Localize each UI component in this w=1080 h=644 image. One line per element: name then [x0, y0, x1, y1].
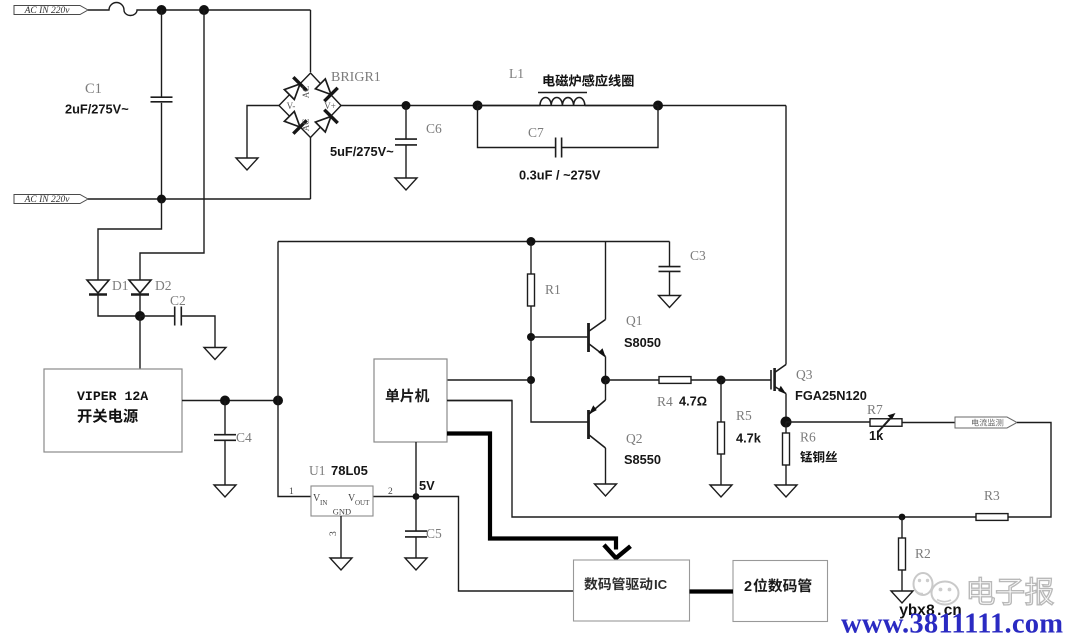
svg-text:C2: C2	[170, 293, 186, 308]
label R7	[867, 402, 883, 417]
svg-text:GND: GND	[333, 507, 351, 517]
label C5	[426, 526, 442, 541]
svg-text:FGA25N120: FGA25N120	[795, 388, 867, 403]
ground (R6)	[775, 485, 797, 497]
node dot C4 tap	[220, 396, 230, 406]
label C6	[426, 121, 442, 136]
svg-text:VIPER 12A: VIPER 12A	[77, 389, 148, 404]
resistor R7 (variable, 1k)	[870, 413, 902, 433]
block U VIPER 12A switching supply	[44, 369, 182, 452]
block 单片机 (microcontroller)	[374, 359, 447, 442]
ground (bridge V-)	[236, 158, 258, 170]
svg-text:C4: C4	[236, 430, 252, 445]
wire emitters to R4	[606, 379, 660, 381]
label D2	[155, 278, 172, 293]
svg-text:Q3: Q3	[796, 367, 813, 382]
node dot emitter junction	[601, 376, 610, 385]
value 电磁炉感应线圈 (induction cooker coil)	[543, 74, 633, 87]
wire Q2 collector to ground	[605, 448, 607, 484]
bridge pin label V+	[324, 101, 336, 111]
svg-text:R1: R1	[545, 282, 561, 297]
capacitor C1	[151, 97, 173, 102]
svg-text:AC IN 220v: AC IN 220v	[24, 195, 71, 205]
label Q3	[796, 367, 813, 382]
svg-text:0.3uF / ~275V: 0.3uF / ~275V	[519, 168, 601, 183]
svg-text:Q1: Q1	[626, 313, 643, 328]
wire neutral to D1	[98, 199, 162, 280]
value S8050	[624, 335, 661, 350]
wire C3 to ground	[669, 272, 671, 295]
node dot C6 tap	[402, 101, 411, 110]
value 1k	[869, 428, 884, 443]
resistor R1	[528, 274, 535, 306]
svg-text:R7: R7	[867, 402, 883, 417]
svg-text:5uF/275V~: 5uF/275V~	[330, 144, 394, 159]
bridge pin label AC bottom	[301, 119, 311, 132]
value S8550	[624, 452, 661, 467]
wire D2 cathode to node	[139, 296, 141, 317]
node dot L1 left	[473, 101, 483, 111]
wire C6 to ground	[405, 145, 407, 177]
ground (R2)	[891, 591, 913, 603]
label BRIGR1	[331, 70, 381, 85]
label L1	[509, 66, 524, 81]
svg-text:2uF/275V~: 2uF/275V~	[65, 102, 129, 117]
svg-text:C1: C1	[85, 81, 102, 97]
svg-text:1: 1	[289, 487, 294, 497]
node dot live/line-B	[199, 5, 209, 15]
label R5	[736, 408, 752, 423]
regulator U1 78L05	[311, 486, 373, 517]
label R6	[800, 430, 816, 445]
wire node to C2	[140, 315, 174, 317]
svg-text:2: 2	[388, 487, 393, 497]
wire R2 to ground	[901, 570, 903, 591]
svg-text:4.7Ω: 4.7Ω	[679, 394, 707, 409]
pin 1 label	[289, 487, 294, 497]
node dot 5V node	[413, 493, 420, 500]
inductor L1 (induction coil)	[478, 93, 659, 106]
bridge rectifier BRIGR1 (diamond)	[279, 73, 341, 138]
svg-text:L1: L1	[509, 66, 524, 81]
svg-text:78L05: 78L05	[331, 463, 368, 478]
bridge diode top-left	[284, 77, 306, 99]
wire DC+ rail	[341, 105, 786, 107]
value 78L05	[331, 463, 368, 478]
svg-text:Q2: Q2	[626, 431, 643, 446]
value 4.7 ohm	[679, 394, 707, 409]
wire to C4	[224, 401, 226, 435]
wire C2 to ground	[181, 316, 215, 347]
resistor R4	[659, 377, 691, 384]
watermark 电子报 (outlined)	[969, 577, 1053, 605]
wire Q3 emitter down	[785, 394, 787, 423]
pin 2 label	[388, 487, 393, 497]
node dot R2 tap	[899, 514, 906, 521]
block 2位数码管 (2-digit display)	[733, 561, 828, 622]
resistor R3	[976, 514, 1008, 521]
wire C7 branch left	[478, 106, 556, 148]
svg-text:2: 2	[744, 579, 752, 595]
capacitor C3	[659, 267, 681, 272]
svg-text:AC IN 220v: AC IN 220v	[24, 6, 71, 16]
resistor R6	[783, 433, 790, 465]
svg-text:C5: C5	[426, 526, 442, 541]
label C2	[170, 293, 186, 308]
wire top rail (VDD)	[278, 241, 670, 243]
svg-text:AC: AC	[301, 119, 311, 132]
wire C5 to ground	[415, 537, 417, 557]
resistor R2	[899, 538, 906, 570]
wire bridge bottom stem	[310, 138, 312, 200]
svg-text:4.7k: 4.7k	[736, 431, 762, 446]
capacitor C5	[405, 531, 427, 537]
block 数码管驱动IC (display driver IC)	[574, 560, 690, 621]
svg-text:AC: AC	[301, 86, 311, 99]
wire R5 to ground	[720, 454, 722, 485]
capacitor C7	[556, 138, 562, 158]
capacitor C6	[395, 139, 417, 145]
svg-text:IN: IN	[320, 499, 327, 507]
label C3	[690, 248, 706, 263]
svg-text:R2: R2	[915, 546, 931, 561]
node dot Q3 emitter node	[781, 417, 792, 428]
svg-text:C3: C3	[690, 248, 706, 263]
capacitor C2	[175, 307, 182, 326]
wire node to VIPER input	[139, 316, 141, 369]
svg-text:D1: D1	[112, 278, 129, 293]
ground (R5)	[710, 485, 732, 497]
net label AC IN 220v (bottom, neutral input)	[14, 195, 88, 206]
node dot rail/R1	[527, 237, 536, 246]
value FGA25N120	[795, 388, 867, 403]
bus wire MCU to display driver (thick)	[447, 434, 629, 559]
transistor Q1 (NPN S8050)	[589, 320, 606, 358]
label C7	[528, 125, 544, 140]
ground (C5)	[405, 558, 427, 570]
svg-text:R4: R4	[657, 394, 673, 409]
wire 5V to display driver IC	[416, 497, 574, 592]
resistor R5	[718, 422, 725, 454]
transistor Q3 (IGBT FGA25N120)	[771, 365, 786, 395]
wire R6 to ground	[785, 465, 787, 485]
wire gate node to R5	[720, 380, 722, 422]
bridge pin label V-	[287, 101, 296, 111]
svg-text:V+: V+	[324, 101, 336, 111]
label Q1	[626, 313, 643, 328]
diode D2	[129, 280, 151, 295]
wire neutral line	[88, 198, 311, 200]
wire bottom feedback rail	[447, 401, 976, 518]
watermark ybx8.cn	[899, 602, 961, 620]
net label AC IN 220v (top, live input)	[14, 6, 88, 17]
label C1	[85, 81, 102, 97]
node dot gate node	[717, 376, 726, 385]
wire Q1 base	[531, 336, 589, 338]
svg-text:BRIGR1: BRIGR1	[331, 70, 381, 85]
svg-text:C6: C6	[426, 121, 442, 136]
wire R4 to gate node	[691, 379, 721, 381]
svg-text:R5: R5	[736, 408, 752, 423]
ground (C4)	[214, 485, 236, 497]
wire rail to C3	[669, 242, 671, 267]
label R4	[657, 394, 673, 409]
transistor Q2 (PNP S8550)	[589, 400, 606, 448]
watermark www.3811111.com	[841, 609, 1063, 640]
fuse F (on live AC line)	[88, 3, 311, 16]
svg-text:3: 3	[329, 531, 339, 536]
wire Q1 emitter down	[605, 357, 607, 381]
wire MCU supply from 5V node	[415, 442, 417, 497]
wire line A upper (to C1)	[161, 10, 163, 97]
wire R1 to base node chain	[531, 306, 589, 422]
wire Q2 emitter up	[605, 380, 607, 400]
node dot neutral/line-A	[157, 195, 166, 204]
net label 电流监测 (current monitor)	[955, 417, 1017, 428]
wire MCU to drive node	[447, 379, 531, 381]
wire MCU feedback (bottom rail tap)	[447, 400, 512, 402]
bus wire driver to display (thick)	[690, 589, 734, 593]
bridge diode bottom-left	[284, 111, 306, 133]
node dot D1/D2 junction	[135, 311, 145, 321]
svg-text:R6: R6	[800, 430, 816, 445]
diode D1	[87, 280, 109, 295]
value 2uF/275V~	[65, 102, 129, 117]
wire rail to R1	[530, 242, 532, 275]
label C4	[236, 430, 252, 445]
label R3	[984, 488, 1000, 503]
wire bridge V- to ground	[247, 106, 279, 158]
wire Q3 node to R7	[786, 421, 870, 423]
node dot L1 right	[653, 101, 663, 111]
bridge pin label AC top	[301, 86, 311, 99]
wire line B (live to D2)	[140, 10, 204, 280]
svg-text:D2: D2	[155, 278, 172, 293]
node dot MCU drive tap	[527, 376, 535, 384]
node dot live/C1	[157, 5, 167, 15]
capacitor C4	[214, 435, 236, 441]
label R1	[545, 282, 561, 297]
bridge diode bottom-right	[315, 110, 337, 132]
value 4.7k	[736, 431, 762, 446]
value 0.3uF / ~275V	[519, 168, 601, 183]
value 5V	[419, 478, 435, 493]
label D1	[112, 278, 129, 293]
wire C4 to ground	[224, 441, 226, 485]
label Q2	[626, 431, 643, 446]
wire node to R2	[901, 517, 903, 538]
wire D1 cathode to node	[98, 296, 140, 317]
svg-text:R3: R3	[984, 488, 1000, 503]
wire line A lower (C1 to neutral)	[161, 103, 163, 199]
ground (C6)	[395, 178, 417, 190]
svg-text:OUT: OUT	[355, 499, 370, 507]
wire flag to right riser	[1008, 423, 1051, 518]
svg-text:V-: V-	[287, 101, 296, 111]
wire rail to C6	[405, 106, 407, 139]
ground (C3)	[659, 296, 681, 308]
wire Q1 collector to rail	[605, 242, 607, 320]
svg-text:S8550: S8550	[624, 452, 661, 467]
wire C7 branch right	[562, 106, 658, 148]
wire U1 GND pin to ground	[340, 516, 342, 558]
watermark WeChat logo	[914, 573, 959, 605]
wire gate node to Q3	[721, 379, 771, 381]
node dot VIPER out / vertical riser	[273, 396, 283, 406]
wire Q3 collector to top rail	[785, 106, 787, 365]
wire 5V node to C5	[415, 497, 417, 531]
wire live line down to bridge	[310, 10, 312, 72]
value 5uF/275V~	[330, 144, 394, 159]
wire node to R6	[785, 422, 787, 433]
svg-text:1k: 1k	[869, 428, 884, 443]
svg-text:S8050: S8050	[624, 335, 661, 350]
wire U1 pin2 to 5V node	[373, 496, 416, 498]
svg-text:5V: 5V	[419, 478, 435, 493]
node dot Q1 base tap	[527, 333, 535, 341]
ground (Q2)	[595, 484, 617, 496]
label U1	[309, 463, 326, 478]
ground (U1 GND)	[330, 558, 352, 570]
ground (C2)	[204, 348, 226, 360]
value 锰铜丝 (manganin wire)	[800, 451, 837, 463]
svg-text:IC: IC	[654, 577, 668, 592]
pin 3 label	[329, 531, 339, 536]
label 开关电源 (switching power supply)	[78, 409, 138, 423]
wire R7 to current-sense flag	[902, 422, 955, 424]
bridge diode top-right	[315, 79, 337, 101]
wire VIPER output	[182, 400, 278, 402]
svg-text:www.3811111.com: www.3811111.com	[841, 609, 1063, 640]
wire riser to top rail and U1 pin1	[278, 242, 311, 497]
label R2	[915, 546, 931, 561]
svg-text:U1: U1	[309, 463, 326, 478]
svg-text:C7: C7	[528, 125, 544, 140]
